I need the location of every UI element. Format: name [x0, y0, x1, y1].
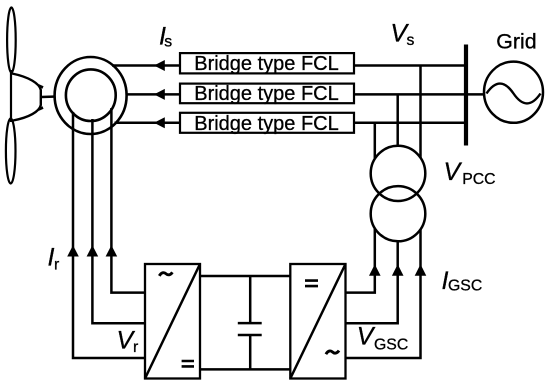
wire drop from row3	[374, 123, 377, 159]
GSC dc symbol =	[305, 281, 318, 287]
turbine shaft	[42, 95, 58, 98]
FCL box 2	[180, 84, 354, 104]
wire stator row1	[112, 64, 180, 67]
arrow GSC right	[415, 264, 427, 276]
RSC diagonal	[145, 264, 200, 379]
svg-text:r: r	[133, 339, 138, 356]
svg-text:Bridge type FCL: Bridge type FCL	[194, 53, 339, 75]
capacitor plate top	[238, 322, 262, 325]
turbine blade shaft line	[10, 70, 12, 122]
turbine hub	[12, 74, 41, 121]
capacitor C lead top	[249, 276, 252, 323]
generator outer circle	[55, 57, 127, 134]
wire box1 to bus	[354, 64, 466, 67]
wire rotor line right	[111, 108, 145, 293]
turbine blade bottom	[6, 119, 16, 184]
turbine blade top	[7, 8, 16, 73]
arrow GSC left	[369, 264, 381, 276]
svg-text:Grid: Grid	[496, 29, 536, 53]
arrow stator row1	[154, 60, 165, 71]
arrow rotor right	[106, 245, 118, 256]
wire box3 to bus	[354, 122, 466, 125]
generator inner circle	[66, 69, 116, 121]
wire transformer to GSC middle	[346, 241, 398, 323]
transformer primary circle	[371, 146, 426, 201]
svg-text:s: s	[407, 32, 415, 49]
svg-text:s: s	[164, 33, 172, 50]
svg-text:r: r	[54, 257, 59, 274]
svg-text:V: V	[444, 158, 463, 186]
FCL box 1	[180, 53, 354, 73]
capacitor plate bottom	[238, 334, 262, 337]
GSC diagonal	[290, 264, 345, 379]
GSC ac symbol ~	[326, 351, 339, 355]
transformer secondary circle	[371, 186, 426, 241]
wire transformer to GSC right	[346, 229, 421, 358]
grid sine wave	[487, 84, 541, 104]
wire drop from row2	[396, 94, 399, 146]
wire drop from row1	[419, 66, 422, 159]
arrow GSC middle	[392, 264, 404, 276]
GSC converter box U2	[290, 264, 345, 379]
arrow rotor left	[67, 245, 79, 256]
RSC dc symbol =	[182, 361, 194, 366]
wire stator row2	[126, 93, 181, 96]
wire rotor line middle	[92, 119, 145, 323]
wire stator row3	[115, 122, 181, 125]
RSC converter box U1	[145, 264, 200, 379]
svg-text:GSC: GSC	[448, 278, 482, 295]
RSC ac symbol ~	[159, 272, 172, 276]
arrow stator row2	[154, 89, 165, 100]
wire box2 to bus and grid	[354, 93, 485, 96]
wire rotor line left	[73, 112, 145, 358]
arrow rotor middle	[87, 245, 99, 256]
wire transformer to GSC left	[346, 228, 375, 292]
svg-text:V: V	[357, 323, 376, 351]
FCL box 3	[180, 113, 354, 133]
dc link rail bottom	[200, 368, 290, 371]
svg-text:Bridge type FCL: Bridge type FCL	[194, 83, 339, 105]
arrow stator row3	[154, 117, 165, 128]
grid source circle	[484, 62, 543, 123]
dc link rail top	[200, 275, 290, 278]
svg-text:PCC: PCC	[462, 171, 495, 188]
turbine hub notch top	[39, 86, 44, 88]
svg-text:Bridge type FCL: Bridge type FCL	[194, 113, 339, 135]
turbine hub notch bottom	[39, 108, 44, 110]
bus bar	[464, 45, 468, 146]
capacitor C lead bottom	[249, 336, 252, 370]
svg-text:GSC: GSC	[374, 337, 408, 354]
